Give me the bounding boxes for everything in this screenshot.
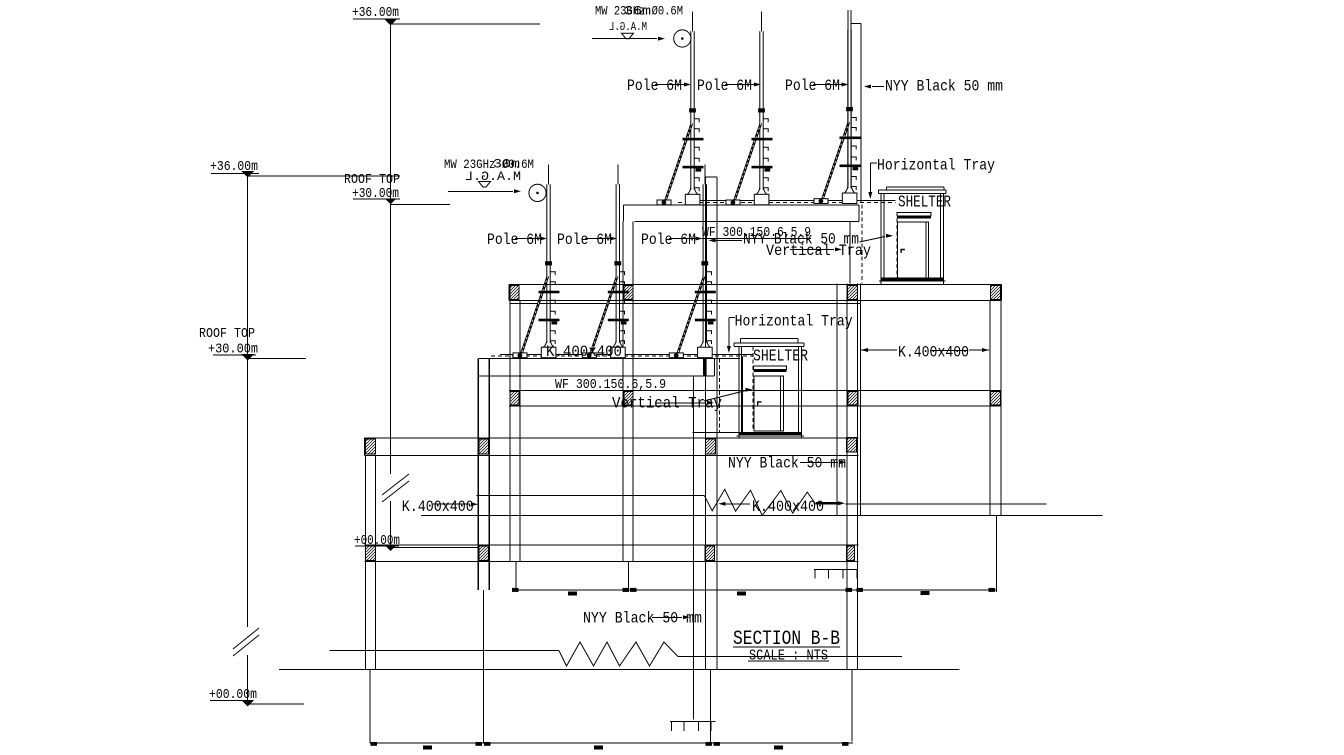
node mass A right wall above roof B [849,221,851,283]
wire MW mid arrow line [448,190,513,192]
node roof slab mass C [365,437,859,439]
wire K mid strike over 400 [930,349,967,351]
wire left datum break symbol [233,628,259,649]
node column pair x622/634 [622,221,624,562]
node dim text blob 3 [921,591,930,595]
svg-text:NYY Black 50 mm: NYY Black 50 mm [885,78,1003,96]
wire bottom dim extension x370 [369,670,371,744]
wire shelter1 door inner edge [925,222,927,278]
wire WF mid underline [555,390,667,392]
wire shelter1 eaves bottom [878,192,946,194]
wire horizontal cable tray level2 (dashed) [491,355,753,357]
wire +36.00m left datum line to ROOF TOP [248,175,400,177]
wire bottom dim extension x483 [483,590,485,743]
wire +30.00m left underline [213,354,256,356]
wire shelter2 left wall inner [740,346,742,432]
wire pole P6 thin tip [704,165,706,185]
svg-text:SCALE : NTS: SCALE : NTS [749,649,828,665]
wire MW top arrowhead [658,37,665,41]
wire pole P1 thin tip [692,12,694,32]
node beam hatch M4 [990,391,1000,405]
pole P2 top platform [726,31,773,205]
node shelter1 sill [881,278,943,281]
svg-text:M.A.G.L: M.A.G.L [609,21,647,34]
svg-text:SHELTER: SHELTER [753,348,808,367]
pole P3 top platform (tall with NYY casing) [814,30,861,204]
node +30.00m left datum triangle [241,354,254,361]
wire shelter1 base line [879,280,946,282]
svg-text:Pole 6M: Pole 6M [697,77,752,95]
wire shelter2 left wall outer [738,346,740,438]
svg-text:Pole 6M: Pole 6M [487,231,542,249]
svg-text:Vertical Tray: Vertical Tray [612,395,722,413]
wire shelter2 eaves top [734,342,804,344]
svg-text:M.A.G.L: M.A.G.L [465,170,521,184]
node grounding zigzag bottom [559,642,678,666]
wire shelter2 tray channel left [741,356,743,432]
node dim text blob 1 [568,592,577,596]
svg-text:Pole 6M: Pole 6M [627,77,682,95]
node datum symbol mid MW [479,182,491,188]
node bottom dim blob 3 [774,746,783,750]
wire shelter1 right wall inner [940,193,942,277]
wire horizontal cable tray top (dashed) [678,202,896,204]
wire +36.00m top underline [353,18,400,20]
wire +36.00m top datum line [391,23,540,25]
node shelter2 door [754,376,783,431]
wire K400 strike left part [723,503,751,505]
wire dim extension x628 [628,562,630,592]
node shelter2 sill [739,432,802,435]
node ground slab right [846,503,1047,505]
node dim text blob 2 [737,592,746,596]
node column head hatch B2 [624,285,633,299]
wire pole P6 passes through WF beam [703,358,707,376]
svg-text:36m: 36m [624,5,651,19]
wire bottom dim extension x852 [851,670,853,742]
node right wall columns below roof B [836,283,838,515]
wire dim extension x996 [995,515,997,592]
wire +00.00m left underline [210,700,248,702]
node beam hatch M1 [510,391,519,405]
wire Vertical Tray mid slant leader [704,391,746,402]
node WF beam platform [478,357,740,359]
node column head hatch C3 [706,439,716,454]
wire NYY casing top connector [851,22,861,24]
wire +30.00m right datum line [391,204,450,206]
wire central column inner line x693 [693,376,695,719]
wire pole P4 thin tip [548,165,550,185]
wire horizontal cable tray top rail [687,200,896,202]
wire shelter2 eaves bottom [734,345,804,347]
node far right wall pair x990/1001 [989,300,991,515]
node column head hatch C2 [479,439,488,454]
wire vertical cable tray right wall (dashed) [861,205,863,284]
wire shelter2 base support line [692,431,739,433]
wire vertical tray at central column (dashed) [718,358,720,432]
node ground slab left [365,544,859,546]
node shelter2 interior shelf [753,366,786,370]
wire shelter2 base line [737,435,804,437]
node intermediate beam band (mass B) [509,389,1001,391]
wire MW mid arrowhead [514,189,521,193]
node beam hatch M3 [848,391,858,405]
node ground column hatch G1 [365,546,375,561]
node ground column hatch G2 [479,546,488,561]
wire NYY casing line on pole P3 [860,23,862,203]
ground earth symbol below central column [670,721,715,723]
wire shelter1 left wall outer [880,193,882,281]
wire WF top underline [702,237,811,239]
node column head hatch C1 [365,439,375,454]
wire shelter1 left wall inner [883,193,885,277]
node central column x705/717 [705,177,707,670]
wire right datum break symbol [382,474,409,495]
svg-text:SHELTER: SHELTER [898,194,951,213]
node bottom dim blob 2 [594,746,603,750]
wire line into zigzag2 [477,495,705,497]
node column head hatch B1 [510,285,519,299]
svg-text:Pole 6M: Pole 6M [557,231,612,249]
svg-text:Vertical Tray: Vertical Tray [766,242,871,260]
wire shelter1 vertical tray (dashed) [896,212,898,278]
node column pair x478/489 under WF beam [477,358,479,590]
node bottom dimension line y=743 [370,742,853,744]
wire horizontal cable tray level2 rail [500,354,753,356]
node column head hatch C4 [847,438,857,453]
pole P4 level2 platform [513,184,560,358]
node roof slab level +30 (mass B) [509,283,1001,285]
node left elevation datum line [247,177,249,627]
node left wall pair x365/376 [364,455,366,669]
wire pole P2 thin tip [761,12,763,32]
svg-text:Pole 6M: Pole 6M [641,231,696,249]
wire dim extension x516 [515,562,517,592]
node column head hatch B3 [848,285,858,299]
MW dish mid (circle) [529,184,546,201]
node column pair x509/520 [509,300,511,562]
wire lower floor line left [330,650,559,652]
node +36.00m left datum triangle [241,171,254,178]
pole P6 level2 platform [669,184,716,358]
node ground column hatch G3 [705,546,715,561]
node +36.00m top datum triangle [384,19,397,26]
node column head hatch B4 [990,285,1000,299]
node +00.00m right datum triangle [385,546,396,552]
wire shelter2 right wall inner [798,346,800,432]
svg-text:K.400x400: K.400x400 [546,343,622,361]
node K.400x400 label mid-right wall [861,349,897,351]
node +00.00m left datum triangle [241,700,254,707]
wire MW top arrow line [592,38,657,40]
wire central column below ground [710,670,712,742]
wire shelter2 roof top [741,338,798,340]
pole P5 level2 platform [582,184,629,358]
capacitor-like MW dish top (circle) [674,30,691,47]
svg-text:Horizontal Tray: Horizontal Tray [735,313,853,331]
wire basement floor line [279,669,960,671]
node +30.00m right datum triangle [385,199,396,205]
wire +00.00m left datum line [248,703,304,705]
wire +30.00m left datum line [248,357,306,359]
wire shelter1 roof top [887,186,944,188]
node top platform slab [623,204,859,206]
wire pole P5 thin tip [617,165,619,185]
node dimension line y=590 [516,589,996,591]
wire +00.00m right datum line [391,546,478,548]
wire pole P3 extended mast to top [847,10,849,188]
wire NYY mid slant leader [860,237,886,243]
wire shelter2 right wall outer [800,346,802,438]
transistor-like mast: pole P1 top platform [657,31,704,205]
svg-text:K.400x400: K.400x400 [752,498,824,516]
node shelter1 interior shelf [897,212,931,216]
wire +36.00m left underline [211,173,259,175]
svg-text:Pole 6M: Pole 6M [785,77,840,95]
wire shelter1 eaves top [878,189,946,191]
node bottom dim blob 1 [423,746,432,750]
svg-text:K.400x400: K.400x400 [898,344,969,362]
wire K400 thick tail [816,502,838,505]
svg-text:ROOF TOP: ROOF TOP [199,326,255,342]
wire shelter1 right wall outer [942,193,944,281]
wire lower floor line right of zigzag [678,656,902,658]
wire shelter2 door inner edge [780,376,782,431]
node ground column hatch G4 [847,546,855,561]
node right elevation datum line [390,25,392,474]
node right wall columns continue underground [846,562,848,670]
wire shelter2 vertical tray (dashed) [752,347,754,432]
node beam hatch M2 [624,391,633,405]
wire +30.00m right underline [353,198,400,200]
svg-text:Horizontal Tray: Horizontal Tray [877,157,995,175]
svg-text:NYY Black 50 mm: NYY Black 50 mm [728,455,846,473]
wire +00.00m right underline [355,545,399,547]
node datum symbol top MW [622,33,634,39]
node shelter1 door [898,222,929,278]
svg-text:K.400x400: K.400x400 [402,498,474,516]
ground earth symbol below right wall [814,568,858,570]
